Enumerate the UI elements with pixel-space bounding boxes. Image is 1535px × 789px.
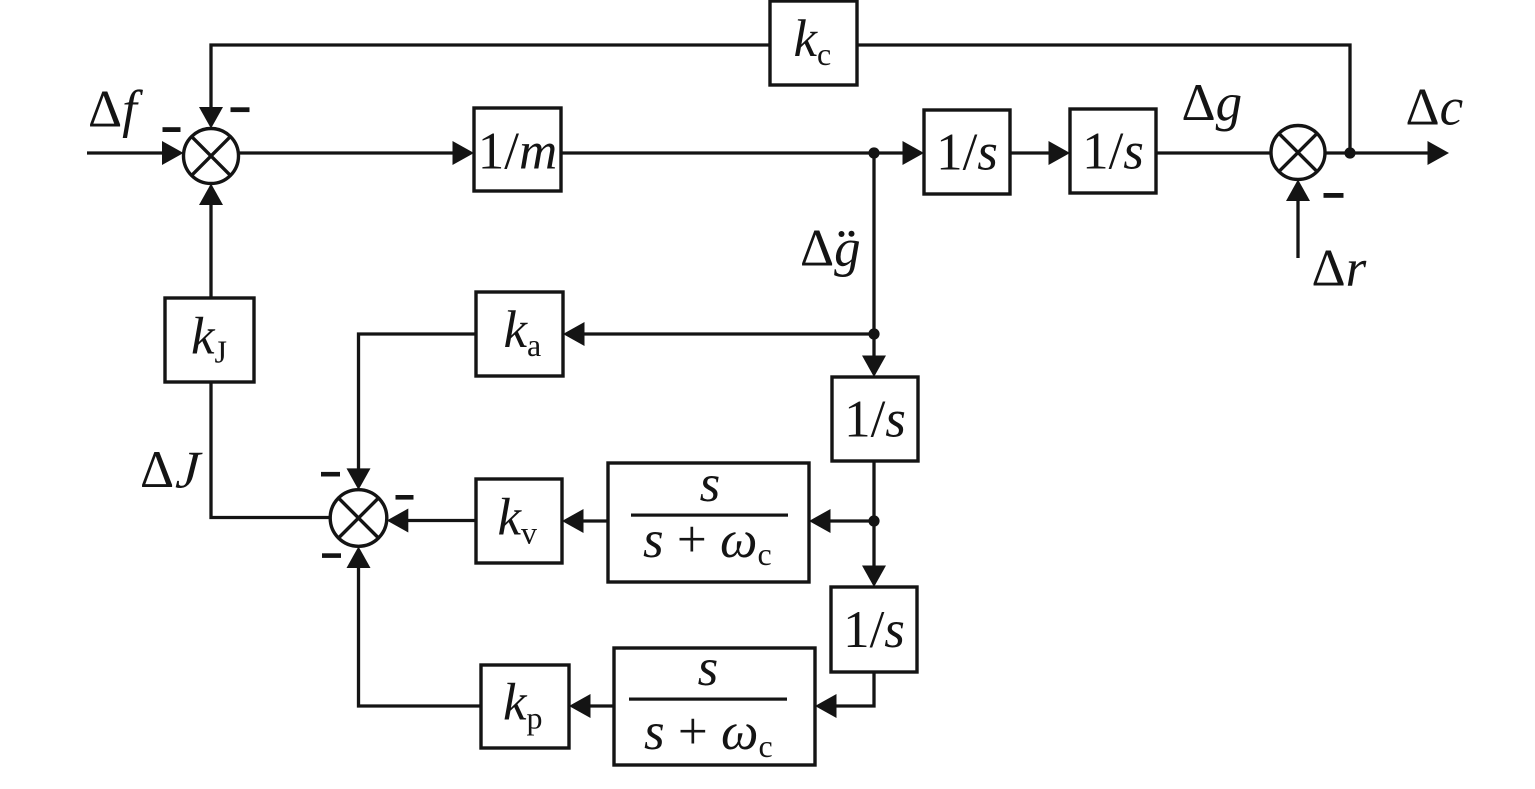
svg-text:1/s: 1/s — [843, 601, 905, 659]
svg-text:Δg: Δg — [800, 219, 861, 277]
svg-text:s: s — [698, 639, 719, 697]
svg-text:Δg: Δg — [1182, 74, 1243, 132]
svg-text:s: s — [700, 455, 721, 513]
svg-text:1/s: 1/s — [1082, 123, 1144, 181]
svg-text:s + ωc: s + ωc — [643, 511, 772, 572]
svg-text:1/s: 1/s — [936, 124, 998, 182]
svg-text:1/s: 1/s — [844, 391, 906, 449]
svg-text:1/m: 1/m — [478, 123, 558, 181]
svg-text:Δc: Δc — [1406, 79, 1464, 137]
svg-text:Δr: Δr — [1312, 240, 1367, 298]
svg-text:Δ: Δ — [140, 441, 174, 499]
svg-text:Δf: Δf — [88, 81, 143, 139]
svg-text:s + ωc: s + ωc — [644, 703, 773, 764]
